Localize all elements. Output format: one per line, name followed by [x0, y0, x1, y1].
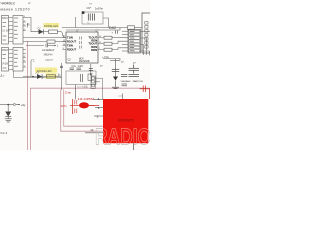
capacitor C7 [121, 75, 139, 77]
svg-text:R2IN: R2IN [91, 48, 97, 52]
svg-text:С*: С* [100, 65, 103, 68]
highlight box D (crystal zone inner) [64, 90, 104, 127]
connector mid pins [92, 77, 95, 87]
crystal ZQ1 body [70, 104, 95, 106]
DD1 pin numbers [24, 16, 26, 31]
yellow highlight DIODE LED 2 [35, 68, 57, 73]
wire LED row 2 [23, 76, 61, 78]
DD1 internal pin label marks [3, 18, 19, 40]
power box caps [81, 74, 83, 82]
cap chain C8 [115, 59, 117, 77]
power box regulator [88, 74, 92, 81]
svg-text:10.245M: 10.245M [78, 97, 95, 101]
wire row y41 left [26, 41, 47, 43]
wire from cap box [103, 18, 109, 28]
DA2 right pin labels [88, 35, 97, 52]
red wire crystal to module [89, 104, 99, 106]
wire VD4 to ground [115, 81, 117, 88]
small caps below [122, 84, 128, 86]
resistor R2 [47, 40, 55, 43]
DD2 pin stubs [9, 50, 27, 70]
DD2 pin numbers [24, 56, 26, 68]
wire to LED row 1 [26, 18, 39, 32]
protection diode VD3 [5, 112, 11, 117]
watermark RADIO (light red over module) [95, 123, 151, 149]
pin arrow 2 upper [31, 59, 33, 64]
svg-text:КФ963ВП5: КФ963ВП5 [118, 119, 134, 123]
DB9 socket XS1 outline [142, 13, 152, 53]
svg-text:АплШМАУ: АплШМАУ [42, 48, 55, 52]
svg-text:T2IN: T2IN [67, 43, 73, 47]
wires from mid connector [95, 78, 102, 99]
IC DD2 body [13, 48, 23, 72]
power arrow +5 [27, 23, 29, 28]
top capacitor box [82, 12, 103, 24]
junction square [82, 11, 85, 14]
highlight box C (crystal zone) [61, 90, 104, 132]
connector pin labels [130, 32, 135, 51]
svg-text:DIODE-LED: DIODE-LED [44, 24, 58, 28]
red capacitor C lower [75, 109, 77, 114]
DA2 left pin stubs [63, 38, 67, 50]
svg-text:УНЦ/ВЫХ: УНЦ/ВЫХ [121, 81, 132, 83]
connector X2 body [2, 48, 9, 72]
cap chain below DA2 left [61, 63, 63, 90]
DD2 internal pin label marks [3, 50, 19, 68]
XS1 pin squares [145, 22, 148, 49]
LED2 arrows [36, 72, 40, 75]
op IC DA2 MAX232 body [66, 32, 98, 63]
wire bottom of DD2 [14, 71, 63, 78]
wire +9v [0, 104, 13, 106]
radio module U1 (highlighted) [103, 99, 148, 143]
connector X1 body [2, 16, 9, 45]
vertical wire x75 [75, 17, 77, 28]
red capacitor C upper [75, 100, 77, 105]
ground [5, 119, 12, 122]
LED VD2 [37, 74, 42, 79]
LED VD1 [39, 29, 44, 34]
wire to protection diode [7, 105, 9, 112]
DA2 left pin numbers [63, 36, 66, 50]
connector pin cells [129, 30, 140, 52]
svg-text:УМЗЧ+!: УМЗЧ+! [44, 53, 54, 57]
capacitor C6 [129, 65, 140, 74]
module bottom wire [133, 143, 135, 150]
svg-text:DN1: DN1 [2, 16, 8, 20]
highlight box outer (red annotation frame) [27, 41, 29, 150]
svg-text:РАВТОСН: РАВТОСН [133, 80, 144, 83]
red capacitor right [143, 86, 145, 93]
svg-text:R2OUT: R2OUT [67, 47, 76, 51]
resistor R LED2 [47, 75, 56, 78]
DA2 internal caps [80, 37, 82, 49]
wire row y45 [26, 45, 44, 47]
svg-text:ОВРУН: ОВРУН [45, 59, 54, 62]
svg-text:С3+: С3+ [72, 65, 77, 68]
caps under DA2 [70, 68, 82, 70]
C5 cap chain [90, 64, 92, 76]
diode VD4 [113, 77, 118, 81]
vertical from arrow to row2 [30, 64, 32, 77]
capacitor C9 plates [88, 14, 94, 21]
wires below DA2 right [103, 59, 120, 61]
svg-text:Рис.9: Рис.9 [1, 131, 8, 135]
IC DD1 body [13, 16, 23, 45]
highlight box B [31, 88, 151, 150]
svg-text:-DIODE-LED: -DIODE-LED [37, 69, 52, 73]
svg-text:С4О: С4О [78, 65, 83, 68]
DA2 right pin numbers [99, 36, 102, 50]
C5 plates [89, 68, 93, 70]
svg-text:С*: С* [121, 61, 124, 64]
resistor R5 [104, 42, 112, 45]
wire row y37 [26, 37, 66, 39]
wire after cap [48, 45, 53, 47]
red bus wire [72, 99, 74, 114]
resistor R1 [49, 30, 58, 33]
svg-text:0.1 БФ: 0.1 БФ [2, 30, 10, 33]
wires connector right side [141, 32, 151, 56]
module pin wires [85, 94, 123, 133]
svg-text:С2-: С2- [68, 60, 72, 62]
svg-text:±27п: ±27п [61, 104, 68, 108]
svg-text:+9у: +9у [21, 103, 26, 107]
cap plates on chain [60, 66, 63, 67]
svg-text:Ч4040ЕУ,: Ч4040ЕУ, [1, 2, 16, 6]
svg-text:1н07м: 1н07м [95, 7, 103, 11]
capacitor near bus [115, 30, 117, 33]
wire down to crystal [75, 85, 77, 100]
wire R1 out [58, 31, 62, 33]
junction dot [7, 104, 9, 106]
top bus wire [62, 27, 128, 29]
svg-text:T1IN: T1IN [67, 35, 73, 39]
wire bus to connector [135, 27, 143, 29]
power section box [66, 71, 96, 85]
DA2 right pin stubs [98, 38, 104, 50]
svg-text:И БФ: И БФ [2, 63, 8, 66]
yellow highlight resistor LED2 [46, 73, 57, 79]
pin arrow 1 right [58, 74, 59, 77]
pin arrow 2 [62, 32, 63, 36]
yellow highlight DIODE LED 1 [44, 23, 60, 28]
svg-text:14: 14 [90, 128, 94, 132]
resistor on bus [128, 26, 135, 29]
svg-text:DN2: DN2 [2, 48, 8, 52]
resistor R6 [104, 48, 112, 51]
capacitor C8 plates [112, 69, 119, 71]
capacitor C in row [46, 44, 48, 47]
resistor R4 [104, 36, 112, 39]
second bus wire [66, 28, 120, 31]
svg-text:Z кв: Z кв [65, 91, 71, 95]
svg-text:С*: С* [90, 73, 93, 76]
svg-text:МАХ202Ф: МАХ202Ф [79, 60, 90, 63]
svg-text:манее 126370: манее 126370 [1, 8, 30, 12]
LED arrows [37, 27, 41, 30]
3-pin connector mid [91, 76, 95, 89]
wire LED1 to R1 [44, 31, 49, 33]
serial connector pin block [128, 30, 141, 54]
svg-text:DA2: DA2 [109, 26, 116, 30]
wire row y41 right [55, 41, 66, 43]
pin circle [13, 103, 15, 105]
junction dot [32, 76, 34, 78]
DA2 left pin labels [67, 35, 76, 51]
svg-text:R1OUT: R1OUT [67, 39, 76, 43]
ground under VD4 [112, 87, 119, 89]
wire diode to ground [7, 117, 9, 119]
arrow right 1 [53, 45, 57, 47]
red wire right [140, 89, 151, 99]
arrow +9v [16, 104, 20, 106]
wires resistors to connector [112, 31, 128, 51]
svg-text:С9*: С9* [87, 6, 91, 10]
DD1 pin stubs [9, 18, 27, 42]
